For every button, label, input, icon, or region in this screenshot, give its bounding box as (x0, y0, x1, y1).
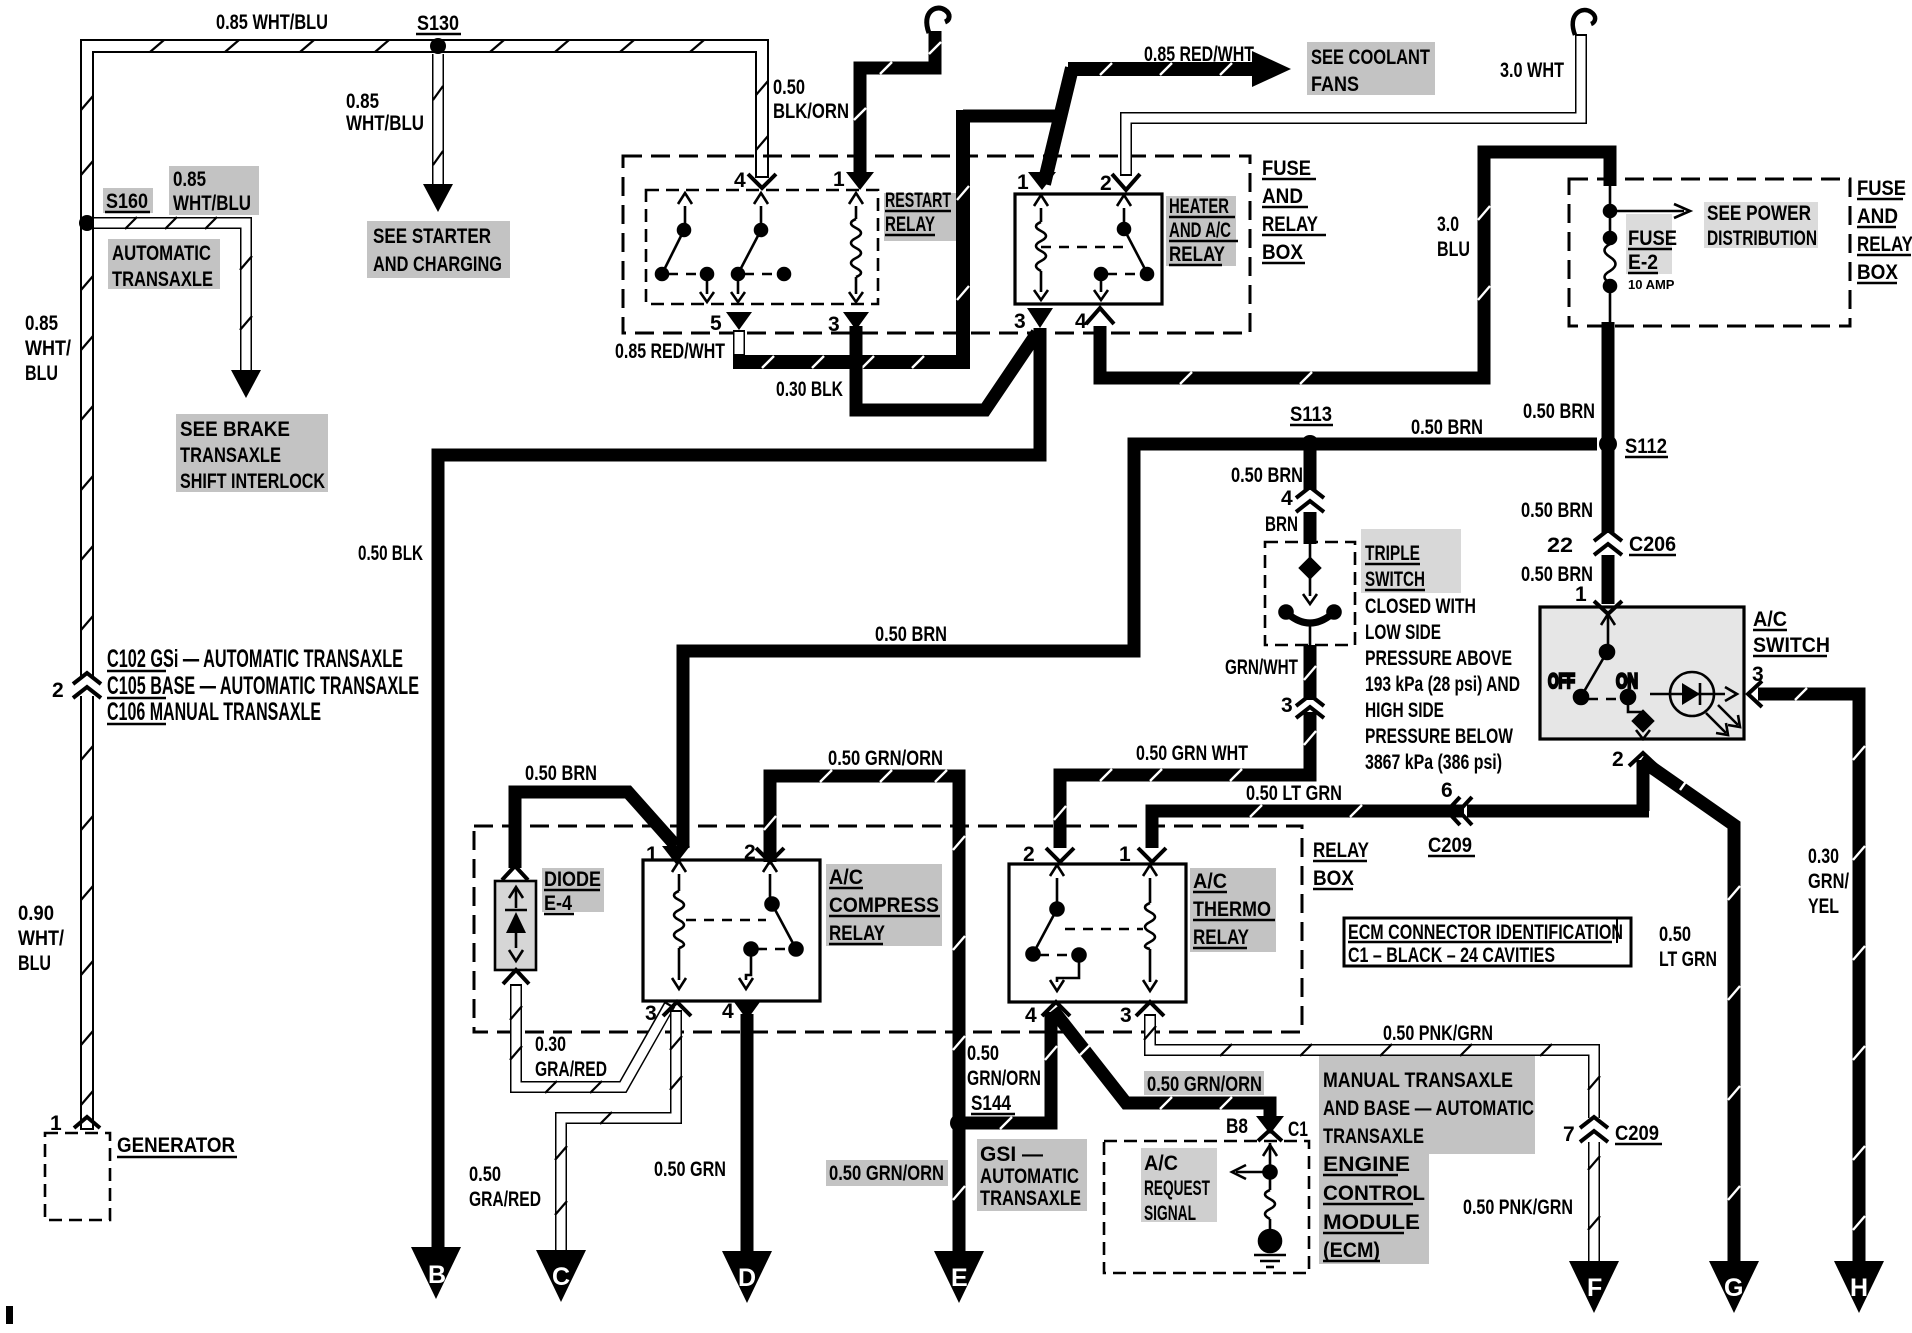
svg-text:C1: C1 (1288, 1118, 1308, 1141)
svg-text:1: 1 (646, 843, 658, 866)
svg-text:0.90: 0.90 (18, 902, 54, 925)
svg-text:22: 22 (1547, 534, 1573, 557)
svg-text:GRN/: GRN/ (1808, 870, 1849, 893)
wire 0.50 GRN/ORN: compress pin 2 up and over to E (764, 747, 965, 1254)
svg-text:0.85: 0.85 (173, 168, 206, 191)
svg-text:TRANSAXLE: TRANSAXLE (1323, 1125, 1424, 1148)
svg-text:RELAY: RELAY (1857, 233, 1912, 256)
A/C switch box (1540, 583, 1830, 739)
svg-text:0.50 PNK/GRN: 0.50 PNK/GRN (1463, 1196, 1573, 1219)
svg-text:HEATER: HEATER (1169, 195, 1229, 218)
svg-text:AUTOMATIC: AUTOMATIC (980, 1165, 1079, 1188)
svg-text:1: 1 (833, 168, 845, 191)
arrow C (536, 1250, 586, 1302)
node S144 (950, 1092, 1015, 1132)
svg-text:0.50 BRN: 0.50 BRN (875, 623, 947, 646)
wire 0.50 BLK/ORN with hook to restart relay pin 1 (773, 8, 949, 176)
thermo relay pins (1023, 843, 1166, 1027)
svg-text:3.0: 3.0 (1437, 213, 1459, 236)
generator box (45, 1133, 237, 1220)
svg-text:4: 4 (1075, 310, 1087, 333)
triple switch note text (1361, 529, 1520, 774)
svg-text:C102 GSi — AUTOMATIC TRANSAXLE: C102 GSi — AUTOMATIC TRANSAXLE (107, 645, 403, 673)
note C102/C105/C106 connector list (107, 645, 419, 726)
connector 22 C206 (1547, 530, 1676, 557)
svg-text:2: 2 (1100, 172, 1112, 195)
heater and A/C relay box (1015, 194, 1238, 304)
svg-text:WHT/: WHT/ (18, 927, 64, 950)
svg-text:AND A/C: AND A/C (1169, 219, 1231, 242)
svg-text:0.30: 0.30 (535, 1033, 566, 1056)
restart relay internals: coil (849, 193, 863, 302)
wire 0.50 BRN: fuse box down through S112, C206 to A/C switch pin 1 (1521, 322, 1608, 604)
svg-text:3867 kPa (386 psi): 3867 kPa (386 psi) (1365, 751, 1502, 774)
svg-text:1: 1 (1017, 171, 1029, 194)
svg-text:RESTART: RESTART (885, 189, 951, 212)
svg-text:WHT/BLU: WHT/BLU (173, 192, 251, 215)
svg-text:0.50 LT GRN: 0.50 LT GRN (1246, 782, 1342, 805)
svg-text:SEE POWER: SEE POWER (1707, 202, 1811, 225)
svg-text:3: 3 (1120, 1004, 1132, 1027)
wire 0.50 LT GRN: A/C switch pin 2 to G (1612, 748, 1740, 1264)
svg-text:AND CHARGING: AND CHARGING (373, 253, 502, 276)
svg-text:H: H (1850, 1274, 1868, 1302)
wire 3.0 WHT thin with hook (1126, 10, 1595, 176)
svg-text:3: 3 (1281, 694, 1293, 717)
svg-text:REQUEST: REQUEST (1144, 1177, 1210, 1200)
svg-text:SEE BRAKE: SEE BRAKE (180, 418, 290, 441)
note SEE COOLANT FANS (1307, 42, 1435, 96)
svg-text:1: 1 (50, 1112, 62, 1135)
svg-text:CLOSED WITH: CLOSED WITH (1365, 595, 1476, 618)
svg-text:0.50 BRN: 0.50 BRN (1411, 416, 1483, 439)
svg-text:ON: ON (1616, 670, 1638, 693)
svg-text:BLU: BLU (18, 952, 51, 975)
svg-text:A/C: A/C (829, 866, 863, 889)
heater relay pins (1014, 171, 1140, 333)
svg-text:GRN/WHT: GRN/WHT (1225, 656, 1298, 679)
restart relay internals: left switch (656, 193, 714, 302)
wire S160 branch to brake shift interlock (94, 217, 261, 398)
svg-text:BOX: BOX (1857, 261, 1898, 284)
svg-text:TRANSAXLE: TRANSAXLE (980, 1187, 1081, 1210)
arrow H (1834, 1261, 1884, 1313)
svg-text:FUSE: FUSE (1628, 227, 1677, 250)
svg-text:GRN/ORN: GRN/ORN (967, 1067, 1041, 1090)
svg-text:2: 2 (1023, 843, 1035, 866)
restart relay inner dashed box (646, 189, 956, 304)
wire 0.50 BRN to diode and compress relay pin 1 (515, 762, 676, 868)
svg-text:B8: B8 (1226, 1115, 1248, 1138)
svg-text:0.50 GRN: 0.50 GRN (654, 1158, 726, 1181)
svg-text:0.50 BRN: 0.50 BRN (1521, 499, 1593, 522)
heater relay internals: switch (1094, 195, 1153, 300)
fuse and relay box (top middle, dashed) (623, 156, 1326, 333)
svg-text:0.85 WHT/BLU: 0.85 WHT/BLU (216, 11, 328, 34)
svg-text:C206: C206 (1629, 533, 1676, 556)
note SEE POWER DISTRIBUTION (1704, 202, 1818, 250)
svg-text:2: 2 (1612, 748, 1624, 771)
svg-text:C105 BASE — AUTOMATIC TRANSAXL: C105 BASE — AUTOMATIC TRANSAXLE (107, 672, 419, 700)
wire 0.50 PNK/GRN: thermo pin 3 to F via C209 pin 7 (1144, 1014, 1600, 1264)
svg-text:SWITCH: SWITCH (1365, 568, 1425, 591)
svg-text:D: D (738, 1264, 756, 1292)
svg-text:(ECM): (ECM) (1323, 1239, 1380, 1262)
svg-text:4: 4 (1281, 487, 1293, 510)
svg-text:193 kPa (28 psi) AND: 193 kPa (28 psi) AND (1365, 673, 1520, 696)
A/C thermo relay box (1009, 864, 1276, 1002)
svg-text:4: 4 (1025, 1004, 1037, 1027)
A/C switch LED indicator (1650, 672, 1740, 735)
svg-text:BLU: BLU (1437, 238, 1470, 261)
svg-text:RELAY: RELAY (1262, 213, 1318, 236)
svg-text:TRANSAXLE: TRANSAXLE (180, 444, 281, 467)
svg-text:HIGH SIDE: HIGH SIDE (1365, 699, 1444, 722)
svg-text:E-4: E-4 (544, 892, 572, 915)
svg-text:RELAY: RELAY (1169, 243, 1225, 266)
svg-text:BOX: BOX (1313, 867, 1354, 890)
node S130 (416, 12, 461, 54)
svg-text:4: 4 (722, 1000, 734, 1023)
svg-text:THERMO: THERMO (1193, 898, 1271, 921)
heater relay internals: coil (1034, 195, 1126, 300)
A/C compress relay box (643, 860, 942, 1001)
svg-text:0.50 GRN/ORN: 0.50 GRN/ORN (828, 747, 943, 770)
label 0.90 WHT/BLU (18, 902, 64, 975)
svg-text:4: 4 (734, 169, 746, 192)
wire 0.50 GRA/RED: compress pin 3 to C (469, 1010, 682, 1252)
svg-text:0.50: 0.50 (773, 76, 805, 99)
wire 0.30 GRN/YEL: A/C switch pin 3 to H (1748, 663, 1865, 1264)
wire 0.50 BRN drop from S113 to triple switch (1231, 444, 1310, 544)
connector B8 / C1 into ECM (1226, 1115, 1308, 1141)
connector 1 at generator (50, 1112, 100, 1135)
svg-text:FUSE: FUSE (1262, 157, 1311, 180)
connector C209 (pin 6) (1428, 797, 1475, 857)
svg-text:C: C (552, 1263, 570, 1291)
svg-text:AND BASE — AUTOMATIC: AND BASE — AUTOMATIC (1323, 1097, 1534, 1120)
svg-text:RELAY: RELAY (829, 922, 885, 945)
svg-text:TRIPLE: TRIPLE (1365, 542, 1420, 565)
node S160 (79, 188, 153, 231)
compress relay internals: coil (672, 861, 766, 989)
svg-text:GENERATOR: GENERATOR (117, 1134, 235, 1157)
svg-text:YEL: YEL (1808, 895, 1839, 918)
svg-text:C1 – BLACK – 24 CAVITIES: C1 – BLACK – 24 CAVITIES (1348, 944, 1555, 967)
svg-text:RELAY: RELAY (1313, 839, 1369, 862)
svg-text:0.50 BRN: 0.50 BRN (1231, 464, 1303, 487)
compress relay pins (645, 841, 784, 1025)
svg-text:RELAY: RELAY (885, 213, 935, 236)
svg-text:MANUAL TRANSAXLE: MANUAL TRANSAXLE (1323, 1069, 1513, 1092)
svg-text:S130: S130 (417, 12, 459, 35)
note MANUAL TRANSAXLE ... ECM (1319, 1054, 1535, 1264)
svg-text:RELAY: RELAY (1193, 926, 1249, 949)
svg-text:5: 5 (710, 312, 722, 335)
restart relay internals: middle switch (731, 193, 790, 302)
svg-text:FANS: FANS (1311, 73, 1359, 96)
arrow E (934, 1251, 984, 1303)
svg-text:0.50 GRN/ORN: 0.50 GRN/ORN (1147, 1073, 1262, 1096)
svg-text:0.50: 0.50 (967, 1042, 999, 1065)
wire 0.30 BLK: restart pin3 to heater pin3 (776, 326, 1037, 410)
svg-text:FUSE: FUSE (1857, 177, 1906, 200)
arrow D (722, 1251, 772, 1303)
svg-text:3: 3 (828, 313, 840, 336)
svg-text:TRANSAXLE: TRANSAXLE (112, 268, 213, 291)
svg-text:0.50: 0.50 (1659, 923, 1691, 946)
svg-text:B: B (428, 1261, 446, 1289)
connector 4 BRN (1265, 487, 1324, 536)
svg-text:GRA/RED: GRA/RED (535, 1058, 607, 1081)
svg-text:A/C: A/C (1193, 870, 1227, 893)
svg-text:COMPRESS: COMPRESS (829, 894, 939, 917)
wire 0.50 GRN: compress pin 4 to D (654, 1014, 747, 1254)
svg-text:LOW SIDE: LOW SIDE (1365, 621, 1441, 644)
svg-text:BLK/ORN: BLK/ORN (773, 100, 849, 123)
svg-text:0.50 BLK: 0.50 BLK (358, 542, 423, 565)
svg-text:GSI —: GSI — (980, 1143, 1043, 1166)
svg-text:DISTRIBUTION: DISTRIBUTION (1707, 227, 1817, 250)
svg-text:1: 1 (1575, 583, 1587, 606)
svg-text:SEE COOLANT: SEE COOLANT (1311, 46, 1430, 69)
svg-text:A/C: A/C (1144, 1152, 1178, 1175)
ECM dashed box (1104, 1141, 1309, 1273)
svg-text:SEE STARTER: SEE STARTER (373, 225, 491, 248)
svg-text:LT GRN: LT GRN (1659, 948, 1717, 971)
svg-text:C106 MANUAL TRANSAXLE: C106 MANUAL TRANSAXLE (107, 698, 321, 726)
label 0.50 GRN/ORN (E wire) (826, 1160, 948, 1186)
svg-text:BOX: BOX (1262, 241, 1303, 264)
svg-text:PRESSURE ABOVE: PRESSURE ABOVE (1365, 647, 1512, 670)
wire 0.50 BRN: S113 run and drop to compress relay pin 1 (683, 416, 1597, 848)
svg-text:0.85 RED/WHT: 0.85 RED/WHT (615, 340, 725, 363)
svg-text:AND: AND (1262, 185, 1303, 208)
svg-text:10 AMP: 10 AMP (1628, 277, 1675, 292)
svg-text:SHIFT INTERLOCK: SHIFT INTERLOCK (180, 470, 325, 493)
svg-text:3.0 WHT: 3.0 WHT (1500, 59, 1564, 82)
svg-text:GRA/RED: GRA/RED (469, 1188, 541, 1211)
svg-text:3: 3 (1014, 310, 1026, 333)
triple switch box (1265, 542, 1355, 645)
thermo relay internals: switch (1027, 865, 1086, 991)
node S112 (1599, 435, 1668, 458)
svg-text:0.50 GRN/ORN: 0.50 GRN/ORN (829, 1162, 944, 1185)
svg-text:0.50 BRN: 0.50 BRN (1523, 400, 1595, 423)
svg-text:2: 2 (52, 679, 64, 702)
fuse and relay box (top right, dashed) (1569, 177, 1912, 326)
svg-text:DIODE: DIODE (544, 868, 601, 891)
wire 0.30 GRA/RED: diode bottom to compress pin 3 (510, 984, 670, 1093)
svg-text:0.50 GRN WHT: 0.50 GRN WHT (1136, 742, 1248, 765)
relay box (lower, dashed) (474, 826, 1369, 1032)
svg-text:BLU: BLU (25, 362, 58, 385)
svg-text:AUTOMATIC: AUTOMATIC (112, 242, 211, 265)
note SEE STARTER AND CHARGING (367, 221, 510, 278)
svg-text:0.50: 0.50 (469, 1163, 501, 1186)
wire 3.0 BLU: heater pin4 right and up to fuse box (1100, 152, 1610, 384)
wire 0.85 RED/WHT: restart pin5 stub + hatched run + riser to coolant fans line (615, 110, 1060, 369)
wire diagonal from heater relay pin 1 up to coolant fans line (1044, 68, 1072, 184)
node S113 (1290, 403, 1333, 453)
wire GRN/WHT from triple switch down, connector 3, to thermo relay pin 2 (1054, 645, 1324, 848)
wire 0.50 LT GRN: C209 to A/C switch pin 2 (1246, 760, 1649, 811)
diode E-4 (495, 866, 604, 984)
svg-text:1: 1 (1119, 843, 1131, 866)
svg-text:7: 7 (1563, 1123, 1575, 1146)
svg-text:0.85: 0.85 (346, 90, 379, 113)
svg-text:PRESSURE BELOW: PRESSURE BELOW (1365, 725, 1513, 748)
wire 0.50 BLK: heater pin3 down, long run left, down to B (358, 328, 1040, 1252)
note SEE BRAKE TRANSAXLE SHIFT INTERLOCK (176, 414, 328, 493)
note GSI automatic transaxle (977, 1139, 1087, 1211)
wire S130 branch down arrow (0.85 WHT/BLU to starter) (423, 54, 453, 212)
triple switch internals (1280, 542, 1341, 645)
fuse E-2 labels (1626, 214, 1677, 292)
svg-text:2: 2 (744, 841, 756, 864)
scan artifact bottom-left (6, 1306, 13, 1324)
svg-text:AND: AND (1857, 205, 1898, 228)
svg-text:S160: S160 (106, 190, 148, 213)
label 0.85 WHT/BLU (left wire) (25, 312, 71, 385)
arrow 0.85 RED/WHT to SEE COOLANT FANS (1068, 43, 1291, 87)
wire 0.50 GRN/ORN: thermo pin 4 diagonal to ECM connector B8 (1053, 1010, 1270, 1118)
wire 0.85 WHT/BLU main run: left vertical + top horizontal + drop to restart relay pin 4 (81, 40, 768, 1130)
svg-text:OFF: OFF (1548, 670, 1575, 693)
svg-text:0.30 BLK: 0.30 BLK (776, 378, 843, 401)
svg-text:E: E (951, 1264, 968, 1292)
wire 0.50 LT GRN: thermo relay pin 1 riser (1152, 805, 1464, 848)
svg-text:C209: C209 (1428, 834, 1472, 857)
svg-text:G: G (1724, 1274, 1743, 1302)
arrow G (1709, 1261, 1759, 1313)
connector 2 on left wire (52, 673, 101, 702)
restart relay pin labels and pin symbols (710, 168, 874, 336)
ECM connector identification box (1344, 918, 1631, 967)
svg-text:F: F (1587, 1274, 1602, 1302)
svg-text:E-2: E-2 (1628, 251, 1658, 274)
connector 7 C209 (1563, 1117, 1662, 1146)
svg-text:SIGNAL: SIGNAL (1144, 1202, 1196, 1225)
label 0.85 WHT/BLU (S160 branch) (169, 166, 259, 215)
svg-text:A/C: A/C (1753, 608, 1787, 631)
svg-text:C209: C209 (1615, 1122, 1659, 1145)
svg-text:CONTROL: CONTROL (1323, 1182, 1425, 1205)
ECM internals: request signal circuit (1232, 1143, 1286, 1267)
svg-text:3: 3 (645, 1002, 657, 1025)
arrow F (1569, 1261, 1619, 1313)
svg-text:0.85: 0.85 (25, 312, 58, 335)
svg-text:S144: S144 (971, 1092, 1011, 1115)
svg-text:S113: S113 (1290, 403, 1332, 426)
compress relay internals: switch (739, 861, 803, 989)
svg-text:SWITCH: SWITCH (1753, 634, 1830, 657)
svg-text:MODULE: MODULE (1323, 1211, 1420, 1234)
svg-text:WHT/: WHT/ (25, 337, 71, 360)
svg-text:S112: S112 (1625, 435, 1667, 458)
svg-text:0.50 PNK/GRN: 0.50 PNK/GRN (1383, 1022, 1493, 1045)
thermo relay internals: coil (1065, 865, 1157, 991)
svg-text:0.85 RED/WHT: 0.85 RED/WHT (1144, 43, 1254, 66)
svg-text:0.50 BRN: 0.50 BRN (525, 762, 597, 785)
svg-text:ENGINE: ENGINE (1323, 1153, 1410, 1176)
svg-text:ECM CONNECTOR IDENTIFICATION: ECM CONNECTOR IDENTIFICATION (1348, 921, 1623, 944)
A/C switch internals (1548, 614, 1653, 739)
wire 0.50 GRN/ORN: thermo pin 4 down to S144 junction (959, 1012, 1057, 1129)
svg-text:WHT/BLU: WHT/BLU (346, 112, 424, 135)
fuse E-2 symbol inside box (1604, 186, 1690, 322)
svg-text:BRN: BRN (1265, 513, 1298, 536)
arrow B (411, 1247, 461, 1299)
note AUTOMATIC TRANSAXLE (108, 239, 220, 291)
svg-text:0.30: 0.30 (1808, 845, 1839, 868)
label 0.85 WHT/BLU (S130 branch) (346, 90, 424, 135)
